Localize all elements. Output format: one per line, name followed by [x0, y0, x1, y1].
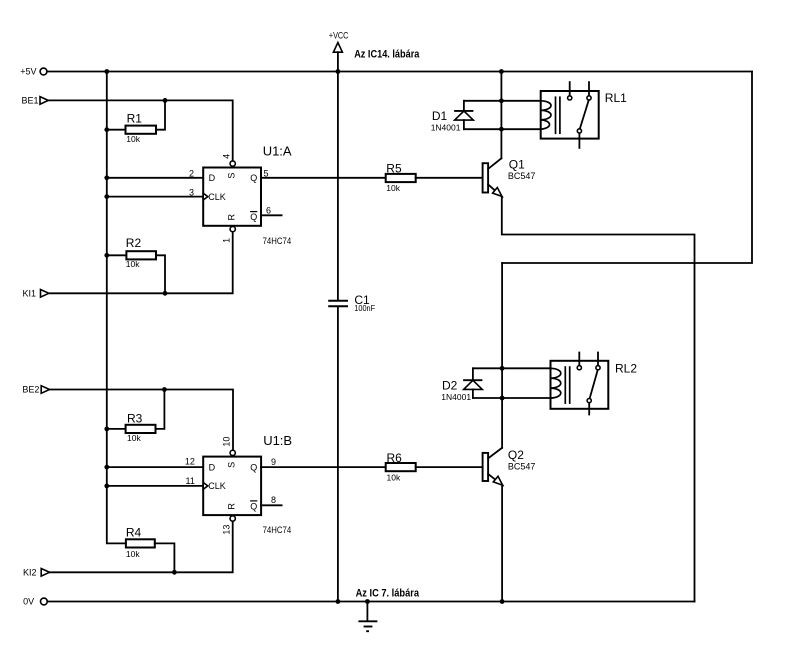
svg-text:U1:A: U1:A — [263, 144, 292, 159]
resistor R5 — [386, 162, 416, 194]
junction rail / pin2 — [104, 175, 109, 180]
junction rail / R3 — [104, 427, 109, 432]
svg-text:74HC74: 74HC74 — [263, 236, 292, 246]
svg-text:R1: R1 — [127, 112, 143, 126]
wire D1-RL1 top rail — [464, 100, 541, 102]
wire R2 left — [107, 254, 127, 256]
connector KI2 — [23, 567, 50, 577]
wire U1:A pin2 — [107, 177, 203, 179]
connector 0V — [23, 597, 47, 607]
junction KI2 / R4 — [172, 570, 177, 575]
svg-text:S: S — [227, 462, 237, 468]
wire left +5V rail — [107, 72, 126, 544]
wire U1:A pin3 — [107, 196, 203, 198]
junction 0V / Q2 emitter — [500, 599, 505, 604]
power +VCC — [329, 31, 349, 72]
svg-text:Q: Q — [250, 501, 257, 511]
svg-text:1: 1 — [221, 238, 231, 243]
svg-text:74HC74: 74HC74 — [263, 525, 292, 535]
transistor Q1 — [483, 157, 536, 196]
svg-text:12: 12 — [185, 456, 195, 466]
junction rail / pin12 — [104, 465, 109, 470]
wire R1 left — [107, 129, 126, 131]
resistor R1 — [126, 112, 157, 145]
wire R3 left — [107, 428, 126, 430]
svg-text:R4: R4 — [126, 526, 142, 540]
svg-text:+5V: +5V — [20, 67, 36, 77]
svg-text:10k: 10k — [387, 472, 401, 482]
svg-text:R3: R3 — [127, 411, 143, 425]
wire D2-RL2 bottom rail — [473, 397, 551, 399]
junction KI1 / R2 — [163, 291, 168, 296]
svg-text:10k: 10k — [126, 549, 140, 559]
connector KI1 — [22, 288, 48, 298]
svg-text:S: S — [227, 173, 237, 179]
svg-text:8: 8 — [271, 495, 276, 505]
svg-text:6: 6 — [266, 205, 271, 215]
svg-text:100nF: 100nF — [354, 303, 375, 313]
svg-text:Q: Q — [250, 463, 257, 473]
connector +5V — [20, 67, 47, 77]
svg-text:Az IC 7. lábára: Az IC 7. lábára — [356, 588, 420, 600]
svg-text:2: 2 — [189, 168, 194, 178]
svg-text:RL2: RL2 — [615, 362, 637, 376]
wire R2 right — [156, 255, 165, 293]
svg-text:BE2: BE2 — [22, 385, 39, 395]
svg-text:13: 13 — [221, 525, 231, 535]
svg-text:Az IC14. lábára: Az IC14. lábára — [354, 48, 420, 60]
wire 0V rail — [47, 601, 694, 603]
wire U1:A Q to R5 — [261, 177, 386, 179]
relay RL1 — [541, 82, 627, 148]
wire U1:B Qbar stub — [261, 504, 282, 506]
transistor Q2 — [483, 448, 536, 486]
junction rail / pin3 — [104, 194, 109, 199]
svg-text:D1: D1 — [432, 109, 448, 123]
wire KI2 to U1:B reset pin — [50, 521, 233, 572]
svg-text:9: 9 — [271, 457, 276, 467]
svg-text:0V: 0V — [23, 597, 34, 607]
svg-text:R: R — [227, 213, 237, 220]
junction BE1 / R1 — [163, 98, 168, 103]
flip-flop U1:A — [189, 144, 292, 246]
ground — [358, 602, 377, 632]
svg-text:Q: Q — [250, 212, 257, 222]
svg-text:KI1: KI1 — [22, 288, 36, 298]
junction top rail / RL1 feed — [499, 69, 504, 74]
resistor R2 — [126, 236, 156, 269]
wire Q2 emitter to 0V — [501, 486, 503, 602]
svg-text:1N4001: 1N4001 — [431, 122, 461, 132]
svg-text:Q: Q — [250, 173, 257, 183]
wire R5 to Q1 base — [416, 177, 483, 179]
svg-text:BC547: BC547 — [508, 171, 536, 181]
svg-text:R2: R2 — [126, 236, 142, 250]
svg-text:10k: 10k — [386, 183, 400, 193]
resistor R4 — [126, 526, 155, 560]
svg-text:Q2: Q2 — [508, 448, 524, 462]
junction rail / R2 — [104, 253, 109, 258]
svg-text:CLK: CLK — [208, 192, 226, 202]
svg-text:D2: D2 — [442, 378, 458, 392]
wire VCC to RL1 / Q1 collector — [500, 72, 502, 159]
svg-text:5: 5 — [264, 168, 269, 178]
diode D1 — [431, 101, 474, 133]
junction BE2 / R3 — [162, 387, 167, 392]
svg-text:10k: 10k — [126, 134, 140, 144]
junction RL2 top rail — [500, 366, 505, 371]
svg-text:R5: R5 — [386, 162, 402, 176]
wire R6 to Q2 base — [416, 466, 483, 468]
flip-flop U1:B — [185, 433, 292, 535]
svg-text:11: 11 — [186, 476, 195, 486]
junction RL2 bottom rail — [500, 396, 505, 401]
wire R4 right — [155, 543, 175, 572]
connector BE2 — [22, 385, 49, 395]
relay RL2 — [551, 353, 638, 415]
wire D2-RL2 top rail — [473, 367, 551, 369]
svg-text:D: D — [209, 173, 216, 183]
wire R3 right — [156, 390, 165, 429]
diode D2 — [441, 368, 482, 402]
wire R1 right — [156, 100, 165, 129]
capacitor C1 — [328, 293, 375, 313]
junction rail / R1 — [104, 127, 109, 132]
svg-text:R: R — [227, 503, 237, 510]
svg-text:BE1: BE1 — [21, 95, 38, 105]
svg-text:4: 4 — [221, 154, 231, 159]
wire Q1 emitter to 0V — [502, 197, 695, 602]
svg-text:RL1: RL1 — [605, 91, 627, 105]
svg-text:R6: R6 — [387, 451, 403, 465]
svg-text:+VCC: +VCC — [329, 31, 349, 41]
svg-text:10: 10 — [221, 437, 231, 447]
wire right VCC drop to RL2 feed — [502, 72, 752, 264]
junction top rail / VCC symbol — [336, 69, 341, 74]
wire KI1 to U1:A reset pin — [49, 232, 233, 293]
resistor R6 — [386, 451, 416, 483]
junction RL1 bottom rail — [499, 127, 504, 132]
resistor R3 — [126, 411, 156, 443]
wire BE2 to U1:B set pin — [50, 390, 234, 452]
junction top rail / left rail — [104, 69, 109, 74]
svg-text:CLK: CLK — [208, 481, 226, 491]
wire U1:B Q to R6 — [261, 466, 386, 468]
junction rail / pin11 — [104, 484, 109, 489]
svg-text:3: 3 — [189, 188, 194, 198]
wire RL2 feed / Q2 collector — [501, 263, 503, 448]
junction 0V / C1 — [336, 599, 341, 604]
svg-text:Q1: Q1 — [509, 157, 525, 171]
wire BE1 to U1:A set pin — [48, 100, 232, 160]
junction RL1 top rail — [499, 98, 504, 103]
svg-text:1N4001: 1N4001 — [441, 392, 471, 402]
wire U1:B pin11 — [107, 485, 203, 487]
svg-text:U1:B: U1:B — [263, 433, 292, 448]
junction 0V / ground — [365, 599, 370, 604]
wire U1:A Qbar stub — [261, 214, 282, 216]
svg-text:KI2: KI2 — [23, 567, 37, 577]
wire C1 to 0V — [337, 308, 339, 602]
wire U1:B pin12 — [107, 466, 203, 468]
wire VCC to C1 — [337, 72, 339, 300]
connector BE1 — [21, 95, 48, 105]
wire D1-RL1 bottom rail — [464, 128, 541, 130]
svg-text:D: D — [209, 463, 216, 473]
svg-text:BC547: BC547 — [508, 461, 536, 471]
svg-text:10k: 10k — [127, 433, 141, 443]
svg-text:10k: 10k — [126, 259, 140, 269]
wire +5V top rail — [47, 71, 752, 73]
